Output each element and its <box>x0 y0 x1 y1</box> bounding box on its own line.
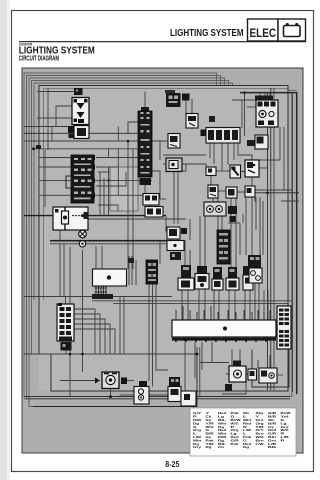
svg-text:LIGHTING SYSTEM: LIGHTING SYSTEM <box>170 27 244 39</box>
svg-text:Blk: Blk <box>268 445 277 449</box>
svg-text:Ch: Ch <box>218 445 224 449</box>
svg-text:P: P <box>281 438 285 442</box>
svg-text:Dg: Dg <box>206 445 212 449</box>
svg-text:Gry: Gry <box>193 445 202 449</box>
svg-text:Pnk: Pnk <box>231 442 239 446</box>
svg-text:CIRCUIT DIAGRAM: CIRCUIT DIAGRAM <box>19 55 59 62</box>
svg-text:L/W: L/W <box>256 442 264 446</box>
svg-text:Dg: Dg <box>243 445 249 449</box>
svg-text:ELEC: ELEC <box>250 26 277 40</box>
svg-text:8-25: 8-25 <box>165 459 179 469</box>
